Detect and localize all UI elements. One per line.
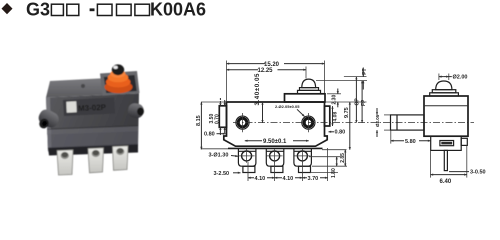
bottom dim extension lines <box>247 162 249 181</box>
front view: terminal hole 1 <box>242 151 252 161</box>
svg-text:3-2.50: 3-2.50 <box>214 171 230 177</box>
photo: button collar inner recess <box>104 75 137 93</box>
front view: right side lug <box>325 106 330 126</box>
photo: terminal 1 <box>57 150 73 175</box>
title diamond bullet <box>2 3 13 14</box>
svg-text:4.10: 4.10 <box>283 176 294 182</box>
right bottom extension lines <box>322 149 347 151</box>
svg-text:0.80: 0.80 <box>204 132 215 138</box>
photo: brand label white chip <box>66 101 76 112</box>
side view: body box <box>424 96 468 136</box>
photo: switch body top face <box>46 77 139 98</box>
title box 5 <box>135 4 150 15</box>
dim 12.25 <box>305 67 307 79</box>
photo: terminal 3 hole <box>116 148 124 155</box>
photo: body bottom dark strip <box>48 144 138 156</box>
photo: orange plunger mid ring <box>106 77 131 88</box>
front view: plunger ring 1 <box>298 90 321 93</box>
front view: terminal pin 2 <box>271 166 283 172</box>
svg-text:3.70: 3.70 <box>308 176 319 182</box>
photo: orange plunger upper ring <box>108 73 129 83</box>
photo: right boss tip hole <box>137 108 144 116</box>
svg-text:9.50±0.1: 9.50±0.1 <box>263 139 287 145</box>
svg-text:3.40±0.05: 3.40±0.05 <box>254 73 261 105</box>
dim 4.10 first <box>248 177 275 179</box>
svg-text:M3-02P: M3-02P <box>78 103 107 113</box>
side view: parting line <box>424 105 468 107</box>
svg-text:4.10: 4.10 <box>255 176 266 182</box>
title box 2 <box>67 4 79 15</box>
front view: terminal tab 3 <box>294 149 312 167</box>
title box 1 <box>51 4 63 15</box>
photo: switch body front face <box>46 94 139 152</box>
side view: base <box>431 136 462 150</box>
front view: terminal tab 2 <box>266 149 284 167</box>
svg-text:2-Ø2.05±0.05: 2-Ø2.05±0.05 <box>275 104 300 109</box>
side view: base right tab <box>461 138 467 145</box>
photo: orange plunger base <box>105 81 133 93</box>
front view: left side lug <box>219 106 226 128</box>
photo: body left edge highlight <box>46 97 52 151</box>
front view: terminal pin 3 <box>299 166 311 172</box>
svg-text:OP: OP <box>355 98 361 106</box>
dim 9.75 <box>325 101 367 103</box>
dim 4.10 second <box>275 177 303 179</box>
front view: body outline <box>224 102 327 146</box>
photo: body parting line <box>47 125 138 130</box>
dim 2.30 <box>327 93 341 95</box>
svg-text:3-0.50: 3-0.50 <box>470 170 486 176</box>
photo: terminal 3 <box>113 146 129 171</box>
photo: top face dimple <box>81 84 85 88</box>
side view: boss <box>391 115 425 130</box>
title box 4 <box>117 4 132 15</box>
svg-text:0.80: 0.80 <box>335 130 346 136</box>
front view: terminal tab 1 <box>238 149 256 167</box>
photo: right boss <box>127 102 145 119</box>
svg-text:4.08: 4.08 <box>333 112 339 122</box>
side view: dim 6.40 <box>430 151 432 178</box>
svg-text:Ø2.05: Ø2.05 <box>375 114 380 127</box>
front view: plunger ring 2 <box>300 88 319 91</box>
dim PT <box>344 76 367 78</box>
photo: brand label band <box>63 98 115 117</box>
photo: button collar outer <box>100 71 140 96</box>
side view: dome cap <box>436 81 452 90</box>
side view: label 3-0.50 <box>449 171 469 173</box>
svg-text:1.80: 1.80 <box>331 168 337 178</box>
photo: terminal 1 hole <box>61 152 69 159</box>
dim 9.50±0.1 <box>245 140 309 142</box>
photo: left boss tip hole <box>38 117 51 130</box>
side view: bottom pin <box>444 150 447 170</box>
svg-text:6.40: 6.40 <box>440 179 452 184</box>
side view: terminal slot <box>440 141 454 146</box>
svg-text:Ø2.00: Ø2.00 <box>453 75 468 81</box>
front view: terminal pin 1 <box>243 166 255 172</box>
front view: plunger dome cap <box>302 79 316 88</box>
photo: black cap <box>112 64 124 75</box>
dim 15.20 <box>226 61 228 102</box>
photo: left boss <box>36 107 61 130</box>
front view: terminal hole 2 <box>270 151 280 161</box>
svg-text:0.70: 0.70 <box>214 114 220 124</box>
svg-text:G3: G3 <box>26 0 50 20</box>
svg-text:5.80: 5.80 <box>405 139 416 145</box>
dim 8.15 <box>201 101 226 103</box>
title box 3 <box>97 4 112 15</box>
front view: mounting hole left <box>236 116 249 129</box>
side view: dim 5.80 <box>390 130 392 143</box>
svg-text:K00A6: K00A6 <box>150 0 206 20</box>
photo: cap highlight <box>113 66 117 69</box>
dim 3.70 <box>302 177 327 179</box>
side view: boss end cap <box>396 115 398 130</box>
side view: ring <box>432 90 456 93</box>
photo: orange plunger top <box>110 70 125 78</box>
photo: terminal 2 hole <box>92 150 100 157</box>
front view: mounting hole right <box>302 116 315 129</box>
title dash <box>90 8 95 11</box>
svg-text:2.30: 2.30 <box>332 95 338 105</box>
svg-text:3-Ø1.30: 3-Ø1.30 <box>209 153 229 159</box>
front view: plunger base block <box>285 94 326 102</box>
side view: top flange <box>430 93 459 96</box>
photo: terminal 2 <box>88 148 104 173</box>
side view: dim phi 2.00 <box>438 74 440 81</box>
front view: base bottom edge <box>228 147 323 149</box>
centerline through holes and side boss <box>233 122 474 124</box>
front view: terminal hole 3 <box>297 151 307 161</box>
